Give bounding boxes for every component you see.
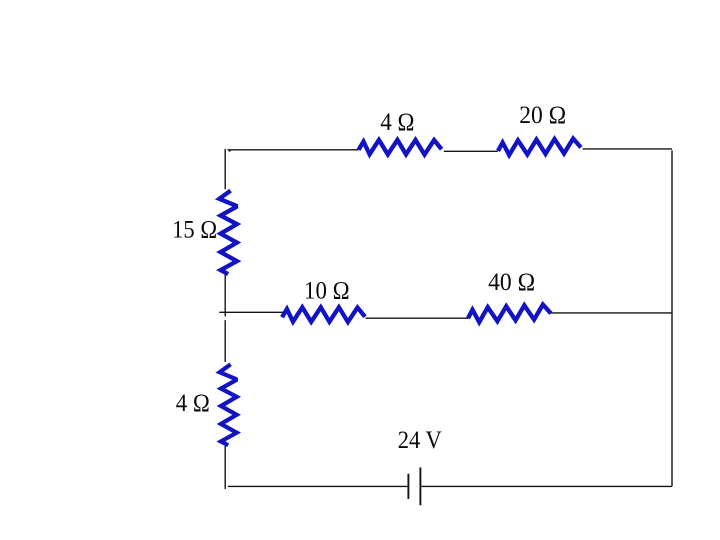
svg-text:40 Ω: 40 Ω xyxy=(488,267,535,296)
svg-text:15 Ω: 15 Ω xyxy=(172,215,217,244)
svg-text:20 Ω: 20 Ω xyxy=(519,100,566,129)
svg-text:24 V: 24 V xyxy=(398,425,443,454)
svg-text:10 Ω: 10 Ω xyxy=(304,276,350,305)
svg-text:4 Ω: 4 Ω xyxy=(176,388,210,417)
svg-text:4 Ω: 4 Ω xyxy=(380,107,414,136)
